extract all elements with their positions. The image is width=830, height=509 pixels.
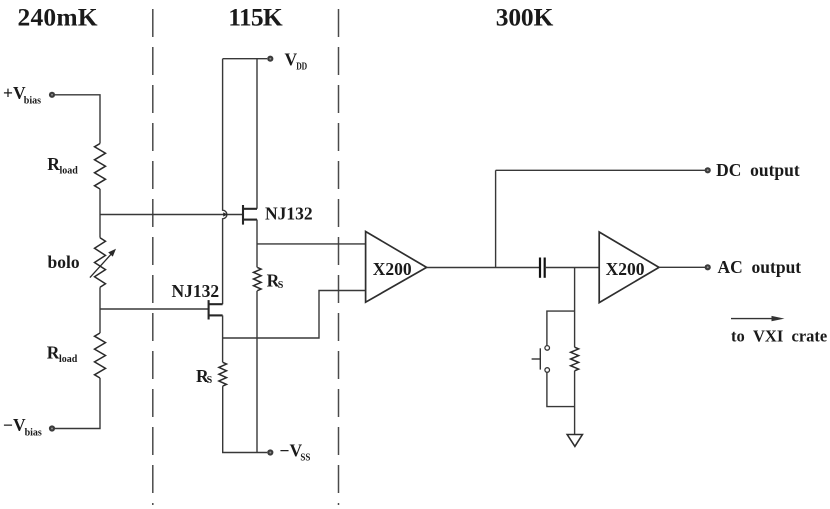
svg-text:load: load	[59, 354, 78, 365]
wire switch branch top	[547, 311, 575, 346]
terminal -Vbias	[3, 415, 55, 438]
wire restore branch down from C1 output	[574, 268, 576, 348]
svg-text:bias: bias	[25, 428, 42, 439]
arrow to VXI crate	[731, 316, 785, 321]
terminal DC output	[705, 160, 800, 180]
switch S1 push button	[532, 346, 550, 373]
svg-text:240mK: 240mK	[18, 2, 98, 31]
wire DC output	[496, 169, 708, 171]
label Rload (upper)	[47, 154, 78, 177]
svg-text:X200: X200	[373, 259, 412, 279]
svg-text:R: R	[47, 154, 60, 174]
wire R1 to ground	[574, 371, 576, 434]
resistor Rload (upper)	[95, 144, 106, 190]
svg-text:−V: −V	[3, 415, 26, 435]
dashed boundary 115K/300K	[338, 9, 340, 505]
terminal +Vbias	[3, 83, 55, 106]
terminal -VSS	[267, 441, 311, 464]
resistor R1 (bleed)	[571, 347, 579, 371]
svg-text:AC output: AC output	[718, 257, 802, 277]
transistor NJ132 (upper)	[243, 205, 257, 225]
svg-text:DD: DD	[296, 61, 307, 72]
dashed boundary 240mK/115K	[152, 9, 154, 505]
wire switch branch bottom	[547, 372, 575, 406]
wire U2 output to AC	[659, 266, 708, 268]
resistor RS (upper)	[254, 267, 262, 290]
svg-text:115K: 115K	[228, 2, 283, 31]
bolo variable resistor	[95, 238, 106, 288]
svg-text:−V: −V	[280, 441, 303, 461]
wire lower FET source to amp U1 lower input	[223, 291, 366, 339]
ground	[567, 435, 582, 447]
svg-text:DC output: DC output	[716, 160, 800, 180]
resistor Rload (lower)	[95, 333, 106, 378]
svg-text:S: S	[278, 280, 284, 291]
op-amp U1 X200	[366, 232, 427, 303]
wire Rload to bolo with node A junction	[99, 189, 101, 238]
svg-text:bolo: bolo	[48, 252, 80, 272]
bolo arrow	[90, 249, 116, 278]
wire DC branch vertical	[495, 170, 497, 267]
label RS (lower)	[196, 366, 213, 386]
svg-text:+V: +V	[3, 83, 26, 103]
svg-text:X200: X200	[606, 259, 645, 279]
label RS (upper)	[267, 270, 284, 290]
svg-text:NJ132: NJ132	[265, 204, 313, 224]
wire +Vbias to left rail	[55, 95, 100, 144]
wire bolo to Rload lower with node B junction	[99, 287, 101, 333]
gate arrowhead of upper NJ132	[223, 212, 228, 216]
svg-text:S: S	[207, 375, 213, 386]
terminal AC output	[705, 257, 802, 277]
transistor NJ132 (lower)	[209, 300, 223, 319]
svg-text:300K: 300K	[496, 2, 554, 31]
label Rload (lower)	[47, 342, 78, 365]
wire RS upper to -VSS rail	[256, 291, 258, 453]
terminal VDD	[267, 50, 307, 73]
svg-text:SS: SS	[300, 453, 310, 464]
wire lower FET source rail	[222, 315, 224, 362]
wire upper FET source to amp U1 input	[257, 243, 366, 245]
wire left rail VDD to lower FET drain, with hop over gate wire	[223, 59, 227, 305]
svg-text:to VXI crate: to VXI crate	[731, 327, 827, 346]
wire C1 to amp U2	[545, 267, 600, 269]
wire gate of upper NJ132 from node A	[100, 214, 243, 216]
svg-text:load: load	[60, 166, 79, 177]
wire source rail of upper FET	[256, 220, 258, 268]
wire drain rail of upper FET	[256, 59, 258, 209]
resistor RS (lower)	[219, 362, 227, 386]
svg-text:bias: bias	[24, 95, 41, 106]
svg-text:NJ132: NJ132	[172, 281, 220, 301]
wire lower RS to -VSS rail	[223, 386, 268, 452]
wire Rload lower to -Vbias	[55, 378, 100, 429]
wire VDD top rail	[223, 58, 268, 60]
svg-text:R: R	[47, 342, 60, 362]
op-amp U2 X200	[599, 232, 659, 303]
wire gate of lower NJ132 from node B	[100, 308, 209, 310]
capacitor C1	[540, 258, 545, 278]
wire U1 output	[427, 267, 540, 269]
